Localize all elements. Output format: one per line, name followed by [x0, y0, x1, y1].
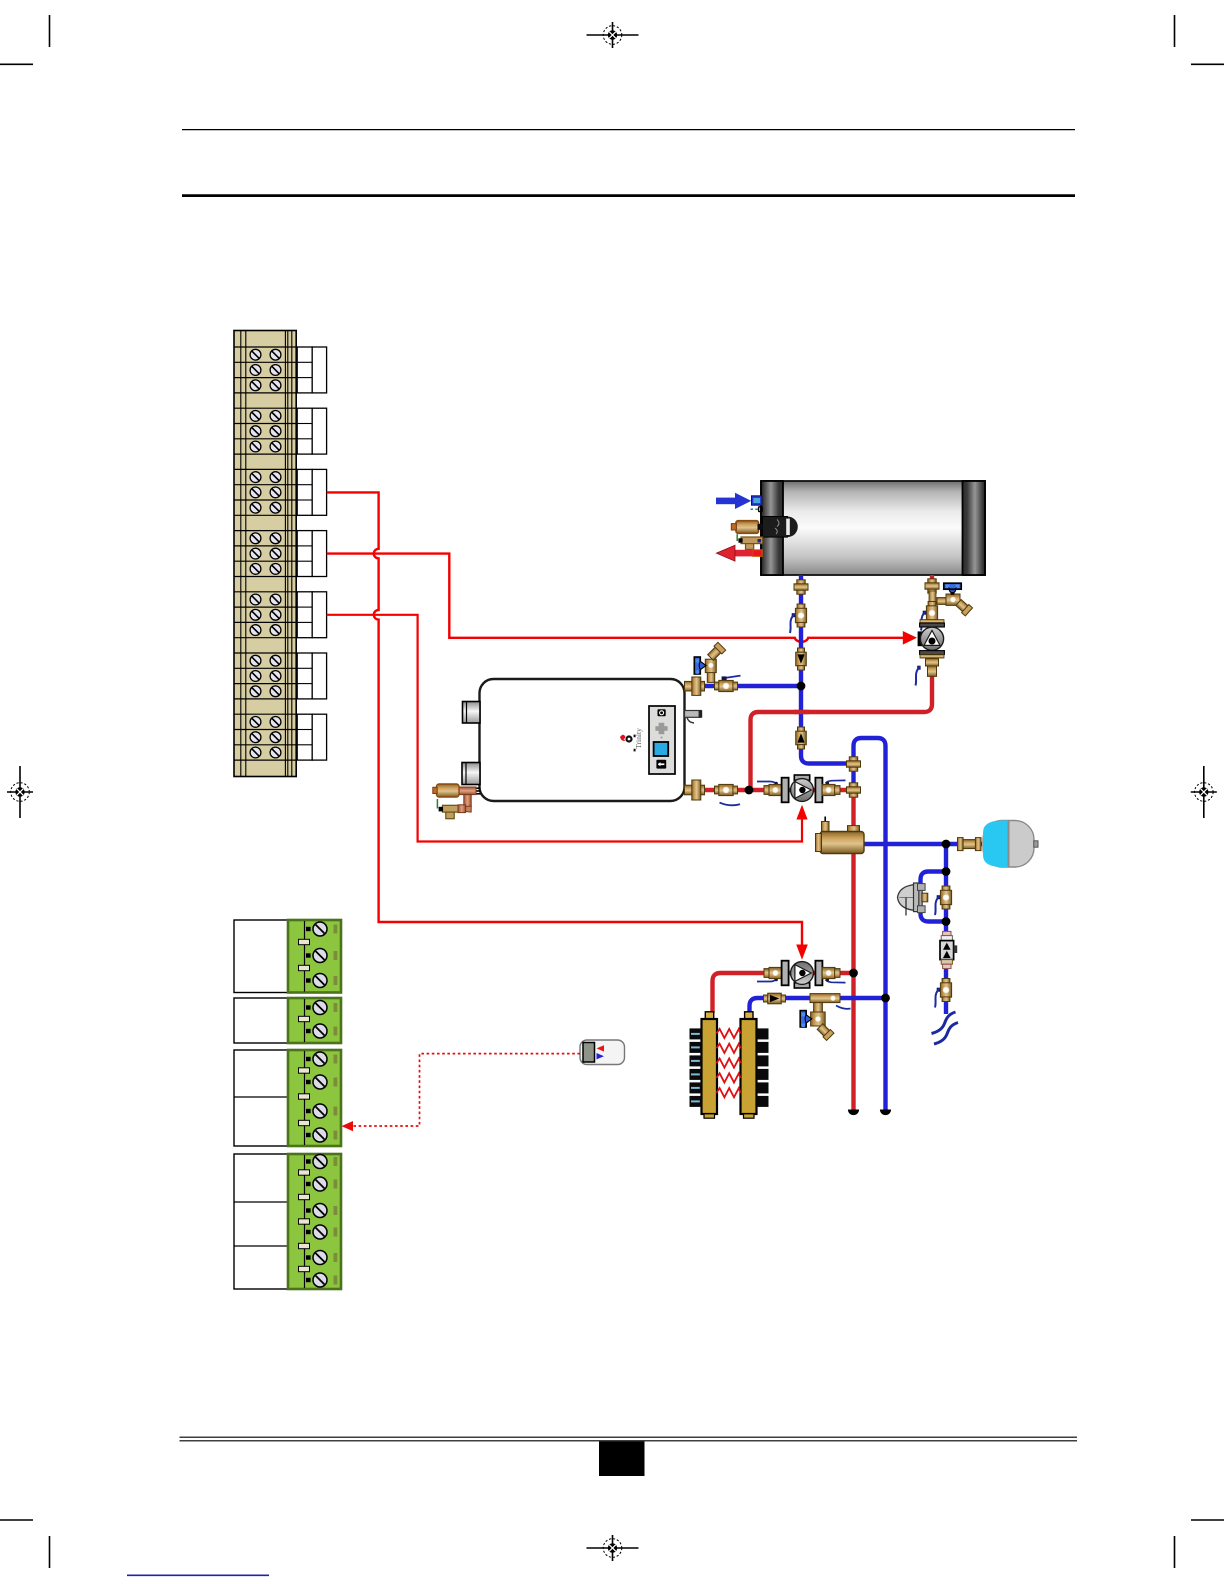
hot water outlet arrow: [716, 545, 762, 561]
boiler pressure relief valve: [433, 784, 481, 819]
ball valve on DHW supply: [921, 602, 938, 631]
boiler drain valve: [694, 642, 725, 682]
reducer below pump: [916, 659, 939, 686]
terminal strip group 7 row 2 screws: [250, 732, 281, 743]
ball valve on tank return drop: [790, 604, 807, 633]
control wire C: terminal group 5 to upper 3-way valve: [327, 615, 808, 842]
check valve (up) on return riser: [796, 727, 807, 749]
connector plug group 3: [297, 469, 326, 515]
heat exchanger left manifold: [702, 1012, 718, 1118]
header rule thick: [182, 194, 1075, 197]
drain cap on supply riser: [848, 1110, 859, 1116]
block B screw 2: [313, 1024, 327, 1038]
bottom-left navy rule: [127, 1574, 269, 1576]
drain cap on return main: [880, 1110, 891, 1116]
low-voltage connector block B housing: [234, 998, 288, 1043]
boiler vent stub lower: [462, 763, 480, 785]
crop mark top-right horizontal: [1191, 63, 1224, 65]
terminal strip group 2 row 1 screws: [250, 411, 281, 422]
low-voltage connector block C housing: [234, 1050, 288, 1146]
tee at return riser: [847, 757, 861, 771]
block D screw 1: [313, 1155, 327, 1169]
low-voltage connector block D green terminal: [288, 1154, 341, 1289]
terminal strip group 6 rows: [234, 653, 296, 699]
junction node below PRV loop: [942, 917, 951, 926]
block D screw 4: [313, 1225, 327, 1239]
upper 3-way diverting valve: [757, 775, 846, 802]
block D screw 2: [313, 1177, 327, 1191]
union at expansion tank: [958, 838, 982, 851]
cold water inlet arrow: [716, 493, 751, 509]
low-voltage connector block C green terminal: [288, 1050, 341, 1146]
cold inlet fitting: [752, 496, 762, 505]
connector plug group 2: [297, 408, 326, 454]
pipe crossing patch red over blue: [794, 710, 809, 714]
terminal strip group 3 row 3 screws: [250, 502, 281, 513]
shutoff ball valve on fill line: [935, 979, 952, 1008]
footer double rule: [180, 1437, 1078, 1441]
junction node above PRV loop: [942, 867, 951, 876]
terminal strip group 2 row 2 screws: [250, 426, 281, 437]
junction node at HX return main: [881, 994, 890, 1003]
thermostat dashed wire: [342, 1054, 581, 1132]
junction node at boiler supply: [745, 786, 754, 795]
DHW circulator pump: [918, 620, 945, 658]
low-voltage connector block A housing: [234, 920, 288, 993]
boiler return tee: [685, 677, 705, 695]
block B screw 1: [313, 1001, 327, 1015]
block C screw 2: [313, 1075, 327, 1089]
footer page-number black box: [599, 1441, 645, 1476]
crop mark top-right vertical: [1174, 15, 1176, 47]
terminal strip group 7 rows: [234, 714, 296, 760]
terminal strip group 1 row 1 screws: [250, 349, 281, 360]
block C screw 1: [313, 1052, 327, 1066]
terminal strip group 4 row 2 screws: [250, 548, 281, 559]
block C screw 3: [313, 1104, 327, 1118]
crop mark bottom-left vertical: [49, 1536, 51, 1568]
brass nipple below union: [929, 591, 936, 607]
crop mark top-left vertical: [49, 15, 51, 47]
pipe: boiler supply to DHW coil (red): [751, 575, 933, 788]
terminal strip group 3 row 2 screws: [250, 487, 281, 498]
block A screw 2: [313, 949, 327, 963]
registration mark left center: [7, 766, 33, 818]
pipe break symbol (to cold main): [932, 1012, 959, 1044]
lower 3-way mixing valve: [757, 961, 846, 988]
pipe: boiler return stub (blue): [704, 684, 799, 688]
tank lower fitting: [738, 537, 762, 549]
boiler control panel: [649, 706, 675, 774]
expansion tank: [983, 821, 1038, 868]
tank aquastat: [731, 521, 763, 534]
control wire B: terminal group 4 to DHW circulator: [327, 554, 917, 645]
terminal strip group 1 row 2 screws: [250, 365, 281, 376]
crop mark bottom-right horizontal: [1191, 1519, 1224, 1521]
boiler vent stub upper: [463, 702, 481, 724]
tee at supply riser: [847, 783, 861, 797]
terminal strip group 2 row 3 screws: [250, 441, 281, 452]
backflow preventer: [940, 931, 957, 968]
pipe: heat-exchanger supply (red): [713, 973, 857, 1013]
terminal strip group 1 row 3 screws: [250, 380, 281, 391]
crop mark bottom-left horizontal: [0, 1519, 33, 1521]
block A screw 3: [313, 974, 327, 988]
tank immersion well: [763, 517, 798, 538]
terminal strip group 5 row 3 screws: [250, 625, 281, 636]
terminal strip group 6 row 2 screws: [250, 671, 281, 682]
ball valve on boiler supply: [715, 784, 741, 805]
connector plug group 6: [297, 653, 326, 699]
registration mark right center: [1191, 766, 1217, 818]
pipe: return main riser (blue): [854, 738, 886, 1110]
terminal strip group 4 rows: [234, 531, 296, 577]
low-voltage connector block B green terminal: [288, 998, 341, 1043]
connector plug group 1: [297, 347, 326, 393]
indirect water heater tank: [761, 481, 985, 575]
crop mark bottom-right vertical: [1174, 1536, 1176, 1568]
terminal strip group 7 row 1 screws: [250, 717, 281, 728]
block C screw 4: [313, 1128, 327, 1142]
terminal strip group 1 rows: [234, 347, 296, 393]
connector plug group 7: [297, 714, 326, 760]
low-voltage connector block D housing: [234, 1154, 288, 1289]
tan terminal strip body: [234, 331, 296, 777]
pipe: pressure reducing valve loop (blue): [921, 872, 947, 922]
union on DHW supply at tank: [925, 579, 939, 593]
pipe: riser to air separator and drain (red): [851, 786, 855, 1110]
connector plug group 4: [297, 531, 326, 577]
pipe: heat-exchanger return (blue): [750, 998, 886, 1013]
terminal strip group 6 row 3 screws: [250, 686, 281, 697]
pipe: boiler outlet header (red): [705, 788, 852, 792]
air separator: [816, 817, 865, 854]
block A screw 1: [313, 922, 327, 936]
terminal strip group 2 rows: [234, 408, 296, 454]
terminal strip group 3 row 1 screws: [250, 472, 281, 483]
terminal strip group 5 row 2 screws: [250, 609, 281, 620]
block D screw 3: [313, 1204, 327, 1218]
boiler supply tee: [685, 780, 705, 800]
tank drain valve: [937, 583, 973, 616]
bypass ball valve on fill line: [935, 886, 952, 915]
terminal strip group 6 row 1 screws: [250, 655, 281, 666]
junction node at boiler return: [797, 682, 806, 691]
pipe: tank coil return drop (blue): [801, 575, 852, 764]
boiler outdoor sensor: [685, 710, 703, 723]
crop mark top-left horizontal: [0, 63, 33, 65]
purge valve tee: [800, 994, 850, 1041]
terminal strip group 5 rows: [234, 592, 296, 638]
thermostat: [580, 1040, 625, 1065]
terminal strip group 5 row 1 screws: [250, 594, 281, 605]
terminal strip group 7 row 3 screws: [250, 747, 281, 758]
aquastat sensor dashed lead: [751, 507, 763, 512]
junction node at HX supply riser: [849, 969, 858, 978]
block D screw 6: [313, 1273, 327, 1287]
union on tank return drop: [794, 580, 808, 594]
heat exchanger right manifold: [741, 1012, 757, 1118]
ball valve on boiler return: [715, 676, 741, 692]
connector plug group 5: [297, 592, 326, 638]
junction node at expansion branch: [942, 840, 951, 849]
check valve on heat-exchanger return: [764, 993, 786, 1004]
check valve (down) on tank return drop: [796, 648, 807, 670]
block D screw 5: [313, 1251, 327, 1265]
pipe: expansion tank branch (blue): [864, 842, 982, 846]
svg-text:Trinity: Trinity: [634, 728, 643, 749]
header rule thin: [182, 129, 1075, 131]
terminal strip group 4 row 1 screws: [250, 533, 281, 544]
registration mark bottom center: [587, 1535, 639, 1561]
pressure reducing valve: [898, 883, 928, 916]
terminal strip group 4 row 3 screws: [250, 564, 281, 575]
pipe: tee stub (blue): [851, 760, 855, 784]
aquastat green lead: [736, 534, 738, 541]
low-voltage connector block A green terminal: [288, 920, 341, 993]
terminal strip group 3 rows: [234, 469, 296, 515]
boiler brand logo: [620, 728, 643, 752]
boiler cabinet: [480, 679, 685, 801]
control wire A: terminal group 3 to lower 3-way valve: [327, 492, 808, 959]
heat exchanger plates and coil: [690, 1028, 769, 1107]
pipe: cold fill line (blue): [944, 844, 948, 1014]
registration mark top center: [587, 22, 639, 48]
